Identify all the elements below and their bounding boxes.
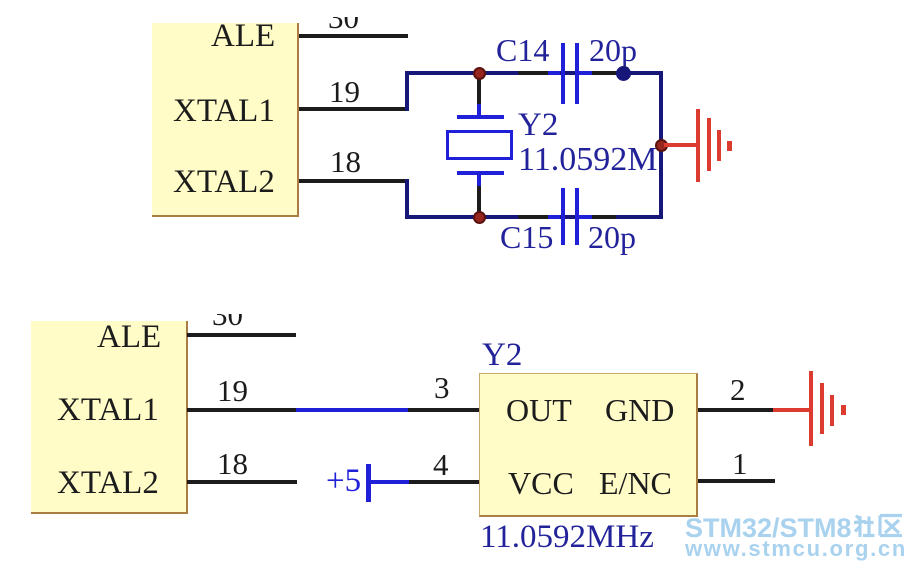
wire pin1 black (698, 479, 775, 483)
wire XTAL1 pin 19 (top) (299, 107, 407, 111)
wire black segment right of C14 (589, 71, 616, 75)
value 20p (C15) (588, 221, 636, 253)
pin name XTAL2 (top box) (173, 166, 275, 199)
ground bar 4 (727, 141, 732, 151)
watermark www line 2 (685, 538, 907, 560)
label Y2 (oscillator) (482, 339, 522, 372)
ground symbol (top circuit) tail (664, 143, 697, 147)
ground bar 2 (bottom) (820, 383, 824, 434)
junction dot top (crystal/C14 node) (473, 67, 486, 80)
pin name XTAL1 (top box) (173, 95, 275, 128)
capacitor C14 right lead (579, 71, 592, 75)
ground bar 1 (bottom) (809, 371, 813, 446)
pin name E/NC (599, 467, 672, 499)
MCU box (bottom) (31, 321, 188, 514)
pin name XTAL2 (bottom box) (57, 467, 159, 500)
wire ALE pin 30 (top) (299, 34, 408, 38)
crystal Y2 body (446, 130, 513, 160)
capacitor C14 right plate (575, 43, 579, 104)
wire crystal top black stub (477, 73, 481, 107)
wire left vertical upper (405, 71, 409, 111)
ground symbol (bottom circuit) tail (773, 408, 810, 412)
oscillator Y2 box (479, 373, 699, 517)
value 11.0592M (518, 143, 657, 177)
ground bar 1 (696, 109, 700, 182)
ground bar 2 (707, 118, 711, 171)
pin number 30 clipped (top) (328, 17, 366, 29)
wire XTAL2 stub (bottom) (187, 480, 297, 484)
wire black segment left of C15 (518, 215, 552, 219)
MCU box (top) (152, 23, 299, 217)
wire net top horizontal (405, 71, 663, 75)
wire ALE pin 30 (bottom) (187, 333, 296, 337)
pin number 18 (top) (330, 146, 361, 177)
label C14 (496, 34, 549, 66)
pin name XTAL1 (bottom box) (57, 394, 159, 427)
wire right vertical (659, 71, 663, 219)
watermark CJK 社区 (852, 513, 904, 539)
wire crystal bottom black stub (477, 184, 481, 217)
ground bar 3 (bottom) (830, 395, 834, 426)
wire left vertical lower (405, 179, 409, 219)
capacitor C15 right plate (575, 188, 579, 245)
pin number 2 (730, 374, 746, 405)
junction dot bottom (crystal/C15 node) (473, 211, 486, 224)
pin number 19 (bottom) (217, 375, 248, 406)
pin name GND (605, 394, 674, 426)
value 11.0592MHz (480, 521, 654, 554)
capacitor C14 left lead (548, 71, 560, 75)
wire pin2 black (698, 408, 774, 412)
power +5 bar (366, 464, 371, 502)
wire net blue segment (XTAL1) (296, 408, 408, 412)
pin number 4 (433, 449, 449, 480)
wire net bottom horizontal (405, 215, 663, 219)
junction dot ground node (655, 139, 668, 152)
value 20p (C14) (589, 34, 637, 66)
power +5 label (326, 465, 361, 498)
pin number 19 (top) (329, 76, 360, 107)
wire pin3 black right (408, 408, 480, 412)
pin number 30 clipped (bottom) (212, 314, 252, 326)
pin number 18 (bottom) (217, 448, 248, 479)
pin name ALE (top box) (211, 20, 275, 53)
crystal Y2 bottom plate (457, 171, 504, 175)
pin name ALE (bottom box) (97, 321, 161, 354)
label Y2 (crystal) (518, 109, 558, 142)
capacitor C15 left plate (561, 188, 565, 245)
ground bar 4 (bottom) (841, 405, 846, 415)
watermark STM32/STM8 line 1 (685, 515, 852, 542)
power +5 wire blue (370, 480, 409, 484)
pin name VCC (508, 467, 574, 499)
pin number 1 (732, 448, 748, 479)
capacitor C15 left lead (548, 215, 560, 219)
pin name OUT (506, 394, 572, 426)
capacitor C15 right lead (579, 215, 592, 219)
wire XTAL1 to pin3 black left (187, 408, 296, 412)
wire XTAL2 pin 18 (top) (299, 179, 407, 183)
crystal Y2 bottom pin stub (477, 172, 481, 186)
junction dot navy (C14 right node) (616, 66, 631, 81)
wire pin4 black (409, 480, 480, 484)
pin number 3 (434, 372, 450, 403)
label C15 (500, 221, 553, 253)
ground bar 3 (717, 130, 721, 161)
capacitor C14 left plate (561, 43, 565, 104)
wire black segment right of C15 (589, 215, 616, 219)
wire black segment left of C14 (518, 71, 552, 75)
crystal Y2 top plate (457, 115, 504, 119)
crystal Y2 top pin stub (477, 104, 481, 118)
